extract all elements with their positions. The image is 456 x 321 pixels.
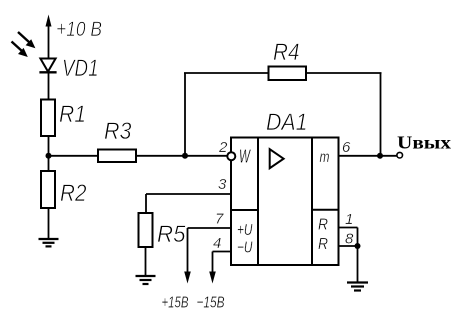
wire pin 3 horizontal — [146, 193, 231, 195]
label R top — [318, 217, 328, 234]
svg-text:+15В: +15В — [162, 295, 189, 312]
photodiode VD1 — [39, 59, 56, 73]
wire node B to op-amp pin 2 — [185, 155, 227, 157]
svg-text:W: W — [239, 147, 251, 167]
label +U — [237, 222, 253, 239]
label DA1 — [266, 109, 308, 136]
svg-text:R: R — [318, 236, 328, 253]
svg-text:VD1: VD1 — [62, 55, 99, 82]
svg-text:R: R — [318, 217, 328, 234]
wire pin 4 horizontal — [213, 251, 232, 253]
svg-text:8: 8 — [345, 231, 354, 248]
ground under R2 — [39, 239, 59, 246]
svg-text:m: m — [320, 149, 330, 166]
wire R5 to ground — [145, 247, 147, 276]
svg-text:R1: R1 — [59, 101, 86, 128]
node C junction — [377, 153, 383, 159]
resistor R1 — [41, 100, 55, 137]
pin number 6 — [342, 139, 351, 156]
label VD1 — [62, 55, 99, 82]
wire feedback riser right — [380, 73, 382, 156]
wire node D to ground — [357, 246, 359, 283]
label -15В — [197, 295, 225, 312]
svg-text:+U: +U — [237, 222, 253, 239]
resistor R4 — [269, 67, 307, 81]
wire pin 3 down to R5 — [145, 194, 147, 213]
wire pin 1 — [339, 228, 358, 247]
svg-text:−15В: −15В — [197, 295, 225, 312]
svg-text:−U: −U — [237, 240, 253, 257]
pin number 3 — [218, 176, 227, 193]
svg-text:1: 1 — [345, 211, 353, 228]
wire feedback riser left — [184, 73, 186, 156]
op-amp triangle — [270, 149, 284, 168]
label R3 — [104, 118, 132, 145]
wire node A to R3 — [49, 155, 99, 157]
svg-text:R5: R5 — [157, 221, 186, 248]
resistor R5 — [139, 213, 153, 247]
wire R3 to node B — [136, 155, 185, 157]
svg-text:+10 В: +10 В — [56, 18, 102, 41]
pin number 7 — [215, 211, 224, 228]
pin number 8 — [345, 231, 354, 248]
wire VD1 to R1 — [48, 72, 50, 100]
label -U — [237, 240, 253, 257]
wire node A to R2 — [48, 156, 50, 171]
svg-text:R2: R2 — [60, 180, 87, 207]
op-amp DA1 body — [231, 138, 339, 266]
ground under R5 — [136, 276, 156, 284]
ground under node D — [347, 283, 368, 291]
resistor R2 — [41, 171, 55, 208]
wire pin 7 down and +15V arrow — [184, 228, 191, 284]
wire feedback top right — [306, 72, 382, 74]
node D junction — [355, 243, 361, 249]
label W — [239, 147, 251, 167]
resistor R3 — [98, 150, 136, 163]
label R bottom — [318, 236, 328, 253]
label R2 — [60, 180, 87, 207]
label R5 — [157, 221, 186, 248]
pin number 1 — [345, 211, 353, 228]
op-amp inversion circle pin 2 — [227, 152, 235, 160]
svg-text:6: 6 — [342, 139, 351, 156]
svg-text:2: 2 — [218, 139, 228, 156]
label +15В — [162, 295, 189, 312]
svg-text:7: 7 — [215, 211, 224, 228]
label R4 — [273, 39, 300, 66]
wire pin 4 down and -15V arrow — [209, 252, 216, 284]
light arrows (photodiode illumination) — [12, 32, 36, 57]
svg-text:4: 4 — [213, 235, 221, 252]
label m — [320, 149, 330, 166]
power arrow +10V — [46, 15, 52, 59]
wire feedback top left — [184, 72, 269, 74]
svg-text:Uвых: Uвых — [397, 133, 451, 153]
label Uвых — [397, 133, 451, 153]
pin number 4 — [213, 235, 221, 252]
svg-text:R3: R3 — [104, 118, 132, 145]
wire pin 6 output — [339, 155, 397, 157]
node A junction — [46, 153, 52, 159]
output terminal circle — [397, 152, 403, 158]
svg-text:R4: R4 — [273, 39, 300, 66]
wire R1 to node A — [48, 136, 50, 156]
wire R2 to ground — [48, 208, 50, 239]
wire pin 7 horizontal — [188, 227, 232, 229]
label R1 — [59, 101, 86, 128]
pin number 2 — [218, 139, 228, 156]
svg-text:3: 3 — [218, 176, 227, 193]
svg-text:DA1: DA1 — [266, 109, 308, 136]
label +10 В — [56, 18, 102, 41]
node B junction — [182, 153, 188, 159]
wire pin 8 — [339, 245, 358, 247]
